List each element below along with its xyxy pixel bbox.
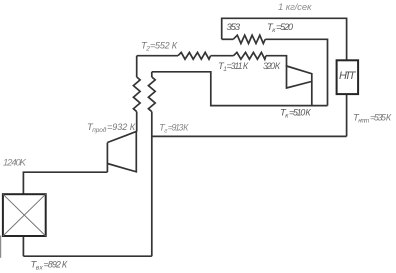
svg-text:320 К: 320 К bbox=[263, 61, 281, 71]
svg-text:=892 К: =892 К bbox=[44, 260, 68, 270]
svg-text:=520: =520 bbox=[276, 22, 293, 32]
heat-exchanger coil HX5 bbox=[148, 77, 155, 112]
heat-exchanger coil HX1 (T2=552 K) bbox=[178, 52, 211, 59]
wire HX2 to compressor inlet bbox=[266, 56, 287, 66]
compressor K1 (320 K) bbox=[287, 66, 312, 88]
wire Tg=913 horizontal bbox=[152, 135, 347, 137]
turbine T1 left edge bbox=[106, 143, 108, 173]
heat-exchanger coil HX4 bbox=[133, 77, 140, 112]
label Tntt=535 K bbox=[353, 112, 392, 124]
svg-text:прод: прод bbox=[92, 126, 106, 134]
svg-text:1 кг/сек: 1 кг/сек bbox=[278, 2, 312, 13]
heater box (combustion chamber) bbox=[3, 194, 46, 236]
label Tprod=932 K bbox=[87, 122, 136, 134]
label Tvx=892 K bbox=[31, 260, 68, 272]
vertical wire left with coil HX4 (regenerator hot side) bbox=[136, 56, 138, 77]
heat-exchanger coil HX2 (T1=311 K) bbox=[234, 52, 266, 59]
svg-text:=552 К: =552 К bbox=[150, 41, 178, 51]
turbine T1 body bbox=[107, 132, 136, 172]
wire NTT box to Tg=913 line bbox=[346, 94, 348, 136]
wire between HX1 and HX2 bbox=[211, 55, 234, 57]
label T1=311 K bbox=[218, 61, 249, 73]
svg-text:1240K: 1240K bbox=[3, 158, 27, 169]
svg-text:вх: вх bbox=[36, 265, 44, 272]
wire coil HX4 to turbine inlet bbox=[136, 112, 138, 132]
cooler box top loop (353 / Tk=520) bbox=[222, 18, 347, 60]
heater diagonal 2 bbox=[3, 194, 46, 236]
cooler bottom wire right segment and down to Tk=510 line bbox=[265, 39, 327, 105]
wire node to Tk=510 line bbox=[152, 72, 328, 106]
wire coil HX5 down to bottom loop bbox=[151, 112, 153, 257]
vertical wire right with coil HX5 (regenerator cold side) bbox=[151, 72, 153, 77]
wire top-left horizontal from corner to recuperator HX1 bbox=[137, 55, 178, 57]
svg-text:=932 К: =932 К bbox=[107, 122, 136, 132]
wire heater outlet down bbox=[22, 236, 24, 256]
svg-text:нтт: нтт bbox=[358, 117, 370, 124]
cooler bottom wire left segment bbox=[222, 38, 234, 40]
svg-text:НТТ: НТТ bbox=[339, 70, 357, 82]
svg-text:=311 К: =311 К bbox=[227, 61, 249, 71]
svg-text:=535 К: =535 К bbox=[370, 112, 392, 122]
label Tk=520 bbox=[267, 22, 293, 34]
NTT box bbox=[337, 60, 359, 94]
label T2=552 K bbox=[141, 41, 178, 53]
scan artifact left edge bbox=[0, 236, 2, 258]
wire bottom horizontal (Tvx=892) bbox=[23, 255, 151, 257]
wire turbine outlet to heater (1240K) bbox=[23, 172, 107, 194]
svg-text:353: 353 bbox=[227, 22, 241, 33]
label Tg=913 K bbox=[159, 122, 189, 134]
svg-text:=510 К: =510 К bbox=[289, 107, 311, 117]
heater diagonal 1 bbox=[3, 194, 46, 236]
label Tk=510 K bbox=[280, 107, 311, 119]
wire compressor outlet down bbox=[311, 81, 313, 105]
svg-text:=913 К: =913 К bbox=[168, 122, 189, 132]
heat-exchanger coil HX3 (cooler 353/520) bbox=[233, 35, 265, 43]
